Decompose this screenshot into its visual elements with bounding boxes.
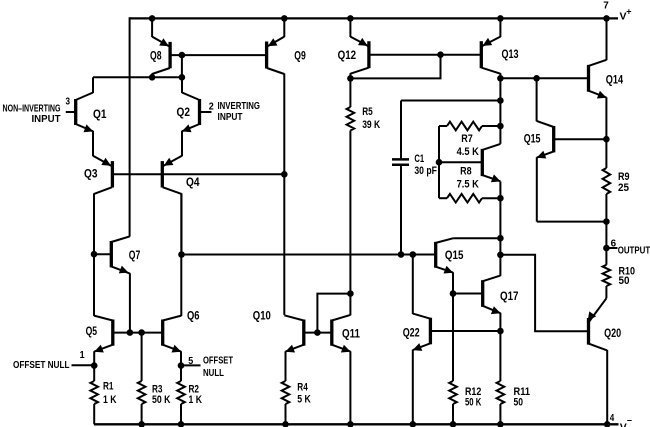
label Q14 [606,72,624,86]
svg-text:INPUT: INPUT [32,114,61,125]
label R2 [189,383,200,395]
svg-text:Q17: Q17 [500,289,519,303]
wire Q5-Q6 base line [113,332,163,334]
label NULL (pin 5) [203,368,224,379]
label R5 [362,106,373,118]
label Q4 [186,175,200,189]
label Q3 [84,167,98,181]
label Q22 [403,325,420,339]
transistor Q3 [93,156,113,316]
node C1 bottom [398,251,405,258]
node mirror junction [281,171,288,178]
svg-text:1 K: 1 K [103,394,117,406]
label pin 7 [603,0,609,11]
node R8 right [497,195,504,202]
node R3 on rail [138,421,145,427]
node Q13 collector [497,75,504,82]
node R2 on rail [178,421,185,427]
node R12 on rail [450,421,457,427]
transistor Q2 [182,77,200,132]
resistor R7 [439,122,500,131]
svg-text:39 K: 39 K [362,119,380,131]
node R3 junction [138,329,145,336]
svg-text:Q3: Q3 [84,167,98,181]
wire V- rail [94,423,619,425]
node Q11 emitter on rail [347,421,354,427]
node Q15 base / R9 top [603,136,610,143]
wire Q13 emitter drop [499,17,501,37]
node Q8 emitter on rail [149,15,156,22]
node pin 1 [91,362,98,369]
label INPUT (pin 2) [218,112,243,123]
label pin 5 [188,355,193,367]
label Q20 [604,326,621,340]
svg-text:R1: R1 [103,381,114,393]
wire Q10-Q11 base line [304,332,332,334]
svg-text:INVERTING: INVERTING [218,101,261,112]
pin 6 lead [606,247,617,249]
svg-text:C1: C1 [414,153,424,165]
transistor Q7 [111,236,130,332]
wire Q12 emitter drop [349,17,351,37]
svg-text:OFFSET NULL: OFFSET NULL [13,360,70,371]
svg-text:Q15: Q15 [445,248,464,262]
resistor R12 [449,294,457,425]
svg-text:30 pF: 30 pF [414,165,437,177]
node Q7 emitter junction [127,329,134,336]
svg-text:R8: R8 [460,166,472,178]
transistor Q20 (PNP output) [588,298,608,424]
node Q7 base [91,251,98,258]
transistor Q13 [481,37,500,79]
wire input collectors node [93,76,182,78]
resistor R3 [138,333,146,425]
node C1 top junction [497,97,504,104]
label pin 3 [66,96,71,108]
label OFFSET NULL (pin 1) [13,360,70,371]
svg-text:Q12: Q12 [338,48,357,62]
svg-text:Q22: Q22 [403,325,420,339]
label R12 [465,386,481,398]
transistor Q14 [589,18,607,168]
label R7 [461,133,473,145]
label C1 [414,153,424,165]
wire Q1-Q3 emitter link [92,131,94,156]
wire Q3-Q4 base line [112,173,284,175]
node Q15 emitter / Q17 base / R12 [450,290,457,297]
resistor R1 [90,366,98,425]
svg-text:Q20: Q20 [604,326,621,340]
label R3 value [152,394,171,406]
node VBE base [436,159,443,166]
svg-text:INPUT: INPUT [218,112,243,123]
svg-text:Q14: Q14 [606,72,624,86]
wire V+ drop to Q7 collector [129,17,131,236]
wire Q7 base lead [94,253,111,255]
label Q2 [177,105,191,119]
label Q15 (current limit) [524,132,541,146]
wire Q8 emitter drop [151,17,153,37]
svg-text:7.5 K: 7.5 K [457,179,479,191]
node R7 right [497,123,504,130]
node output [603,245,610,252]
label R7 value [457,146,479,158]
svg-text:Q2: Q2 [177,105,191,119]
label R2 value [189,394,203,406]
svg-text:Q8: Q8 [150,48,162,62]
transistor Q5 [94,316,113,366]
svg-text:5: 5 [188,355,193,367]
svg-text:OFFSET: OFFSET [203,356,233,367]
label Q7 [129,248,141,262]
svg-text:3: 3 [66,96,71,108]
svg-text:R4: R4 [297,382,308,394]
label Q12 [338,48,357,62]
node pin 5 [178,362,185,369]
transistor Q15 (current limit) [537,78,607,221]
label R8 value [457,179,479,191]
svg-text:4: 4 [610,412,615,424]
label Q6 [187,308,200,322]
label pin 4 [610,412,615,424]
node Q20 collector on rail [604,421,611,427]
transistor Q8 [152,37,170,78]
label Q17 [500,289,519,303]
node Q11 collector [347,290,354,297]
node Q15 output-stage collector tap [533,75,540,82]
label Q1 [93,107,107,121]
resistor R4 [282,381,290,424]
node R9 bottom [603,218,610,225]
label R10 [619,265,636,277]
label R11 value [514,397,524,409]
label INPUT (pin 3) [32,114,61,125]
svg-text:50: 50 [514,397,524,409]
transistor Q9 [266,37,284,175]
svg-text:6: 6 [611,238,617,250]
svg-text:4.5 K: 4.5 K [457,146,479,158]
label R9 [618,171,630,183]
wire R7-R8 base loop [438,126,440,198]
node Q8 collector junction [149,74,156,81]
wire Q11 base-collector loop [317,294,350,333]
label R4 [297,382,308,394]
wire Q20 base path [500,255,588,331]
svg-text:R5: R5 [362,106,373,118]
transistor Q4 [162,156,182,255]
node Q15 collector junction [497,235,504,242]
node Q12 base tie [437,51,444,58]
pin 5 lead [181,364,201,366]
node Q10-Q11 base tie [314,329,321,336]
label V- [620,416,632,427]
label R9 value [618,182,629,194]
label OFFSET (pin 5) [203,356,233,367]
wire second stage input line [182,254,436,256]
resistor R5 [347,78,355,293]
svg-text:R7: R7 [461,133,473,145]
node Q4-Q6 collectors [178,251,185,258]
label pin 1 [80,349,85,361]
resistor R10 [603,248,611,298]
transistor Q1 [76,77,94,132]
label R5 value [362,119,380,131]
svg-text:5 K: 5 K [297,393,311,405]
resistor R2 [177,366,185,425]
node Q17 emitter / R11 / Q22 base [497,328,504,335]
svg-text:Q10: Q10 [253,309,271,323]
transistor Q11 [332,294,351,425]
node R11 on rail [497,421,504,427]
node R4 on rail [282,421,289,427]
node Q22 collector junction [410,251,417,258]
label pin 2 [209,101,214,113]
svg-text:Q15: Q15 [524,132,541,146]
wire second stage vertical upper [499,78,501,144]
svg-text:V: V [620,422,627,427]
label Q10 [253,309,271,323]
pin 1 lead [72,364,95,366]
wire Q9 emitter drop [283,17,285,37]
wire C1 top link [401,100,500,102]
label R12 value [465,397,481,409]
svg-text:50 K: 50 K [152,394,171,406]
capacitor C1 [392,101,409,255]
node Q2 collector junction [179,74,186,81]
svg-text:NULL: NULL [203,368,224,379]
resistor R9 [603,168,611,248]
svg-text:Q4: Q4 [186,175,200,189]
wire Q8-Q9 base line [170,54,267,56]
svg-text:−: − [627,416,632,426]
svg-text:Q11: Q11 [342,327,360,341]
wire Q2-Q4 emitter link [181,131,183,156]
wire Q13 collector node line [500,77,588,79]
svg-text:Q1: Q1 [93,107,107,121]
label R1 [103,381,114,393]
svg-text:Q6: Q6 [187,308,200,322]
label OUTPUT [618,246,650,257]
svg-text:Q9: Q9 [294,49,306,63]
svg-text:50: 50 [619,275,630,287]
transistor Q17 [483,276,501,331]
resistor R11 [497,331,505,424]
node pin 7 junction [603,15,610,22]
svg-text:NON–INVERTING: NON–INVERTING [3,104,61,115]
label R3 [152,383,163,395]
resistor R8 [439,194,500,203]
svg-text:+: + [626,7,631,17]
wire VBE base lead [439,161,482,163]
wire Q12 base-collector link [350,55,440,79]
pin 3 lead [66,111,76,113]
label R1 value [103,394,117,406]
svg-text:7: 7 [603,0,609,11]
svg-text:1: 1 [80,349,85,361]
node Q12 emitter on rail [347,15,354,22]
transistor Q22 [413,255,431,425]
transistor Q15 (driver) [436,238,501,293]
transistor VBE multiplier [482,144,500,182]
label Q5 [86,324,98,338]
svg-text:2: 2 [209,101,214,113]
node Q13 emitter on rail [497,15,504,22]
svg-text:Q13: Q13 [502,47,519,61]
transistor Q12 [350,37,369,79]
label Q8 [150,48,162,62]
wire second stage vertical lower [499,182,501,276]
node Q8 base-collector tie [179,52,186,78]
label R10 value [619,275,630,287]
node Q20 base tap [497,252,504,259]
label Q11 [342,327,360,341]
node Q9 emitter on rail [281,15,288,22]
label Q15 (driver) [445,248,464,262]
wire Q15 base lead [554,138,607,140]
svg-text:50 K: 50 K [465,397,481,409]
wire Q17 base lead [453,293,483,295]
wire Q22 base line [430,330,500,332]
label pin 6 [611,238,617,250]
wire Q10 collector riser [283,174,285,315]
label NON-INVERTING [3,104,61,115]
svg-text:1 K: 1 K [189,394,203,406]
svg-text:OUTPUT: OUTPUT [618,246,650,257]
svg-text:Q5: Q5 [86,324,98,338]
label V+ [620,7,632,23]
label INVERTING [218,101,261,112]
label R4 value [297,393,311,405]
pin 2 lead [200,111,212,113]
node Q12 collector / R5 top [347,75,354,82]
transistor Q6 [163,194,182,366]
label Q9 [294,49,306,63]
label C1 value [414,165,437,177]
wire V+ rail [130,17,618,19]
wire Q12-Q13 base line [369,54,481,56]
svg-text:Q7: Q7 [129,248,141,262]
label R8 [460,166,472,178]
transistor Q10 [284,315,304,381]
label R11 [514,386,531,398]
svg-text:25: 25 [618,182,629,194]
node Q22 emitter on rail [410,421,417,427]
label Q13 [502,47,519,61]
